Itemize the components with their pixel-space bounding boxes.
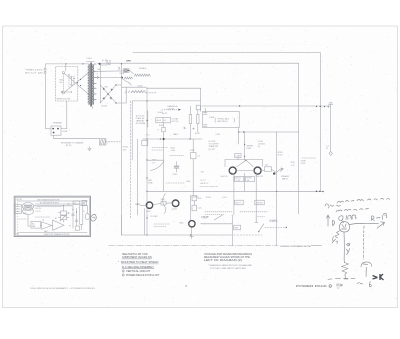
svg-text:LEFT OF DIAGRAM (2): LEFT OF DIAGRAM (2) bbox=[204, 259, 242, 262]
svg-text:LOAD: LOAD bbox=[235, 155, 240, 158]
svg-text:R-60: R-60 bbox=[186, 181, 190, 183]
svg-text:HEATER A+: HEATER A+ bbox=[168, 105, 179, 108]
svg-text:TO AMP (2): TO AMP (2) bbox=[269, 220, 278, 223]
svg-text:39.2: 39.2 bbox=[201, 171, 204, 173]
svg-text:*: * bbox=[118, 261, 119, 264]
svg-text:FUSIBLE: FUSIBLE bbox=[139, 68, 147, 70]
svg-text:GRID: GRID bbox=[179, 222, 184, 224]
svg-text:C-6: C-6 bbox=[197, 155, 200, 157]
svg-text:464.2 W: 464.2 W bbox=[221, 176, 228, 178]
svg-text:L-601: L-601 bbox=[203, 218, 208, 220]
svg-text:R-66: R-66 bbox=[291, 162, 295, 164]
svg-text:48: 48 bbox=[247, 180, 249, 182]
svg-text:R-C NETWORK FOR TEST: R-C NETWORK FOR TEST bbox=[40, 202, 59, 204]
svg-text:SPKR: SPKR bbox=[23, 213, 27, 215]
svg-text:A+ 6.3: A+ 6.3 bbox=[162, 112, 167, 115]
svg-text:C-612: C-612 bbox=[172, 174, 177, 176]
svg-text:C-22: C-22 bbox=[291, 165, 295, 167]
svg-text:MOUNTED TO HEAT SHIELD: MOUNTED TO HEAT SHIELD bbox=[121, 261, 159, 264]
svg-text:(2) CKT: (2) CKT bbox=[209, 149, 216, 151]
svg-text:R-619: R-619 bbox=[206, 197, 211, 199]
svg-text:CR-601: CR-601 bbox=[101, 106, 107, 108]
svg-text:J-2: J-2 bbox=[74, 203, 76, 205]
svg-text:2: 2 bbox=[123, 275, 124, 277]
svg-text:J1: J1 bbox=[83, 211, 85, 213]
svg-text:A M R O F: A M R O F bbox=[201, 182, 209, 185]
svg-text:BY (2): BY (2) bbox=[66, 145, 72, 147]
svg-text:C-604: C-604 bbox=[171, 150, 176, 152]
svg-text:MATCH: MATCH bbox=[282, 178, 289, 181]
svg-text:C-611: C-611 bbox=[222, 197, 227, 199]
svg-text:B+ 6D: B+ 6D bbox=[106, 61, 112, 63]
svg-text:VERTICAL CIRCUIT: VERTICAL CIRCUIT bbox=[126, 270, 151, 273]
svg-text:S: S bbox=[97, 74, 98, 76]
svg-text:PHONO JACK: PHONO JACK bbox=[218, 118, 230, 121]
svg-text:R-C DECADE ASSEMBLY: R-C DECADE ASSEMBLY bbox=[122, 266, 154, 269]
svg-text:A+6.3: A+6.3 bbox=[157, 119, 162, 122]
svg-text:N O I T: N O I T bbox=[201, 180, 206, 182]
svg-text:PLUG: PLUG bbox=[278, 155, 283, 157]
svg-text:NO SIGNAL: NO SIGNAL bbox=[136, 122, 146, 125]
svg-text:1-2: 1-2 bbox=[337, 287, 339, 289]
svg-text:C4607: C4607 bbox=[190, 150, 195, 152]
svg-text:HTR (2): HTR (2) bbox=[172, 121, 179, 123]
svg-text:POWER PACK: POWER PACK bbox=[296, 285, 328, 288]
svg-text:R-62: R-62 bbox=[198, 198, 202, 200]
svg-text:C-607: C-607 bbox=[216, 134, 221, 136]
svg-text:RETURNED TO CHASSIS: RETURNED TO CHASSIS bbox=[61, 141, 84, 144]
svg-text:TRANS PRI: TRANS PRI bbox=[209, 145, 219, 148]
svg-text:R-615: R-615 bbox=[171, 147, 176, 149]
svg-text:O61T: O61T bbox=[135, 204, 141, 206]
svg-text:1: 1 bbox=[123, 271, 124, 273]
svg-text:V-603: V-603 bbox=[246, 148, 251, 150]
svg-text:R-1 220: R-1 220 bbox=[36, 208, 42, 210]
svg-text:38A5 C: 38A5 C bbox=[173, 133, 179, 136]
svg-text:SEL: SEL bbox=[105, 86, 108, 88]
svg-text:(2): (2) bbox=[258, 146, 261, 148]
svg-text:TONE: TONE bbox=[148, 183, 154, 185]
svg-text:TP-1: TP-1 bbox=[146, 135, 150, 137]
svg-text:60 CY (2): 60 CY (2) bbox=[25, 72, 43, 74]
svg-text:INTERLOCK SW: INTERLOCK SW bbox=[57, 98, 71, 100]
svg-text:TP 601: TP 601 bbox=[123, 146, 128, 148]
svg-text:C-3 .05: C-3 .05 bbox=[36, 211, 41, 213]
svg-text:Q-602: Q-602 bbox=[172, 208, 177, 210]
svg-text:POWER REGULATOR & CKT: POWER REGULATOR & CKT bbox=[126, 274, 160, 277]
svg-text:T-601: T-601 bbox=[86, 58, 92, 60]
svg-text:1.5M 2W: 1.5M 2W bbox=[256, 203, 263, 205]
svg-text:C-61: C-61 bbox=[198, 208, 202, 210]
svg-text:34.2: 34.2 bbox=[265, 165, 268, 167]
svg-text:117V AC LINE INPUT APPLIED: 117V AC LINE INPUT APPLIED bbox=[210, 267, 247, 270]
svg-text:22: 22 bbox=[326, 148, 328, 150]
svg-text:R-618: R-618 bbox=[195, 133, 200, 135]
svg-text:NOTE 3: NOTE 3 bbox=[17, 199, 23, 201]
svg-text:601: 601 bbox=[60, 82, 63, 84]
svg-text:294.2T: 294.2T bbox=[235, 203, 240, 205]
svg-text:* ON FILE CONTINUED NOTE: * ON FILE CONTINUED NOTE bbox=[279, 246, 312, 248]
svg-text:SPK: SPK bbox=[126, 61, 131, 63]
svg-text:R-604: R-604 bbox=[158, 112, 163, 114]
svg-text:R-C NET: R-C NET bbox=[151, 216, 159, 218]
svg-text:* READINGS TAKEN WITH NO SIGNA: * READINGS TAKEN WITH NO SIGNAL AND bbox=[208, 264, 253, 267]
svg-text:8: 8 bbox=[330, 286, 331, 288]
svg-text:V-601: V-601 bbox=[146, 211, 151, 213]
svg-text:PWR-115V: PWR-115V bbox=[26, 69, 44, 71]
svg-text:COMPONENT VALUES FIN: COMPONENT VALUES FIN bbox=[122, 256, 152, 259]
svg-text:V94 OV2: V94 OV2 bbox=[256, 176, 263, 178]
svg-text:AND SW (2): AND SW (2) bbox=[218, 120, 228, 123]
svg-text:6.3: 6.3 bbox=[164, 120, 166, 122]
svg-text:FILE 608 SCH-M SCHEMATIC +: FILE 608 SCH-M SCHEMATIC + POWER DIVISIO… bbox=[31, 287, 96, 290]
svg-text:FUSE: FUSE bbox=[62, 131, 68, 133]
svg-text:+ TERMINAL: + TERMINAL bbox=[51, 122, 62, 125]
svg-text:R-601: R-601 bbox=[120, 73, 125, 75]
svg-text:R(S): R(S) bbox=[60, 80, 64, 82]
